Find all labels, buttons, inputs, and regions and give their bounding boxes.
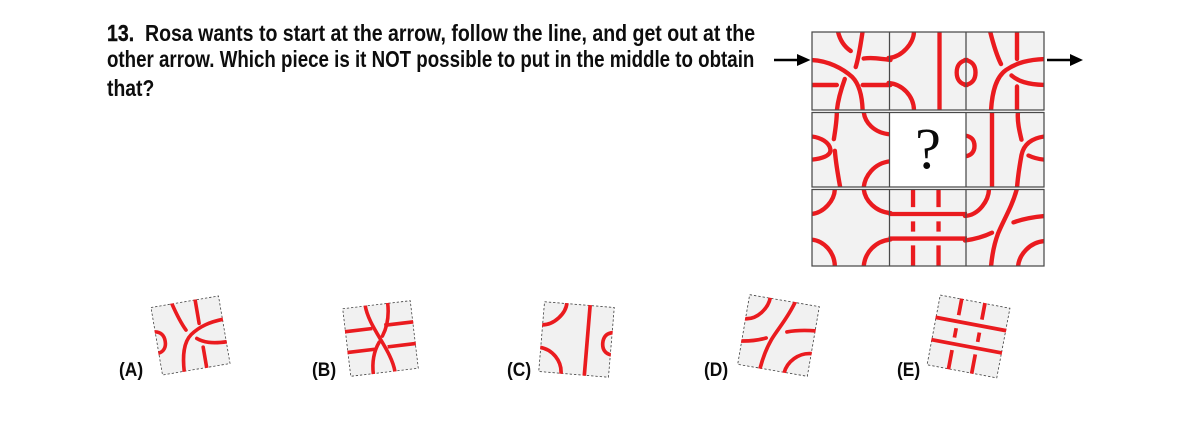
cell bottom-middle	[889, 189, 967, 267]
puzzle grid	[760, 20, 1100, 280]
answer tile C	[516, 279, 637, 400]
left arrow	[774, 54, 811, 66]
grid border lines	[812, 32, 1044, 266]
cell bottom-right	[965, 189, 1045, 267]
label (D)	[704, 361, 728, 381]
answer tile A	[130, 275, 251, 396]
white middle cell	[890, 113, 966, 188]
label (C)	[507, 361, 531, 381]
label (A)	[119, 361, 143, 381]
cell top-left knot	[811, 31, 890, 111]
cell top-middle	[889, 31, 967, 111]
cell top-right	[965, 31, 1045, 111]
cell bottom-left	[811, 189, 890, 267]
question text line 1	[107, 22, 755, 45]
label (E)	[897, 361, 920, 381]
question text line 3	[107, 77, 154, 100]
svg-text:?: ?	[915, 116, 941, 181]
label (B)	[312, 361, 336, 381]
answer tile E	[908, 276, 1029, 397]
answer tile D	[718, 275, 839, 396]
question text line 2	[107, 48, 754, 71]
grid row strip backgrounds	[812, 32, 1044, 266]
cell middle-left	[811, 112, 890, 188]
answer tile B	[320, 278, 441, 399]
right arrow	[1047, 54, 1083, 66]
cell middle-right	[965, 112, 1045, 188]
